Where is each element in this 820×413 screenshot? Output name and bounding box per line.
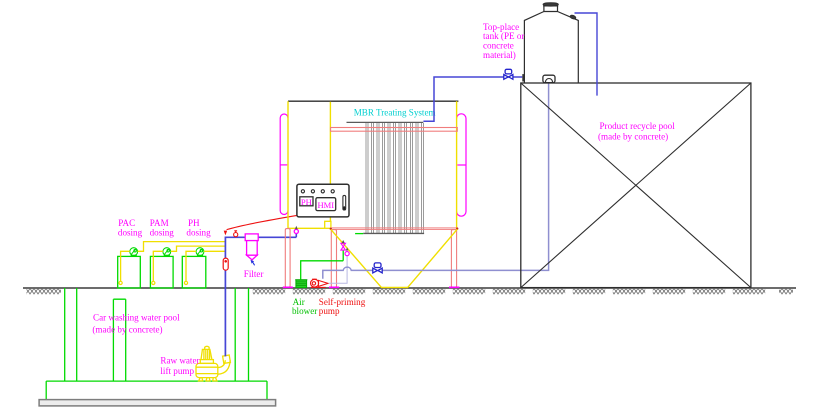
hopper (yellow): [331, 229, 458, 287]
air blower: [296, 280, 307, 288]
tank top fitting: [570, 15, 577, 20]
membrane curtains: [366, 123, 424, 233]
air pipe valve (magenta): [341, 243, 346, 250]
svg-text:lift pump: lift pump: [160, 366, 194, 376]
dosing tank PH: [182, 256, 206, 288]
MBR level gauge left: [280, 114, 288, 214]
MBR left wall: [288, 101, 325, 228]
svg-text:Product recycle pool: Product recycle pool: [600, 121, 676, 131]
dosing tank PAM: [150, 256, 173, 288]
svg-text:HMI: HMI: [317, 200, 334, 210]
svg-text:Filter: Filter: [244, 269, 264, 279]
control wire from panel (red): [227, 215, 297, 229]
pool base plate: [39, 400, 276, 406]
discharge tube PH: [204, 250, 225, 252]
permeate pipe: [423, 77, 522, 121]
PH display: [300, 197, 313, 206]
svg-text:(made by concrete): (made by concrete): [92, 325, 162, 335]
svg-text:dosing: dosing: [118, 228, 143, 238]
discharge tube PAM: [171, 246, 225, 251]
suction dip tube PAM: [153, 251, 163, 281]
raw water lift pump: [196, 346, 230, 381]
MBR leg mid: [331, 230, 336, 288]
dosing pump PAM: [163, 248, 171, 257]
membrane header: [347, 121, 424, 123]
tank bottom outlet box: [543, 75, 555, 82]
top-place tank: [524, 6, 578, 83]
discharge valve V2: [373, 263, 382, 273]
membrane cassette bar (red): [331, 128, 458, 132]
svg-text:PH: PH: [301, 197, 312, 207]
dosing tank PAC: [118, 256, 141, 288]
filter drain arrow: [251, 260, 255, 264]
dosing sensor capsule: [223, 258, 228, 270]
membrane bottom rail: [363, 232, 424, 234]
discharge tube PAC: [138, 242, 225, 252]
MBR bottom bar: [331, 228, 458, 230]
dosing pump PH: [196, 248, 204, 257]
product recycle pool: [521, 83, 751, 288]
svg-text:material): material): [483, 50, 516, 60]
pump discharge pipe: [323, 83, 549, 279]
svg-text:(made by concrete): (made by concrete): [598, 132, 668, 142]
panel indicator lamps: [301, 190, 334, 193]
tank overflow pipe: [575, 13, 598, 96]
HMI display: [316, 198, 336, 211]
panel signal wire (yellow): [329, 102, 331, 222]
tank inlet flange: [522, 74, 524, 81]
svg-text:dosing: dosing: [150, 228, 175, 238]
MBR tank top line: [288, 100, 458, 102]
drain valve: [345, 252, 349, 256]
MBR leg right: [451, 230, 456, 288]
ground line: [23, 287, 796, 289]
svg-text:MBR Treating System: MBR Treating System: [354, 108, 436, 118]
ground hatching: [27, 289, 794, 294]
MBR level gauge right: [457, 114, 466, 216]
control panel: [297, 184, 349, 217]
hopper drain line: [329, 256, 348, 283]
svg-text:Raw water: Raw water: [160, 355, 199, 365]
svg-text:pump: pump: [319, 306, 340, 316]
svg-text:blower: blower: [292, 306, 317, 316]
svg-text:Car washing water pool: Car washing water pool: [93, 312, 180, 322]
air pipe (green): [301, 250, 344, 279]
wire junction box: [325, 221, 331, 228]
self-priming pump: [311, 279, 329, 287]
suction dip tube PAC: [121, 251, 130, 281]
svg-text:dosing: dosing: [186, 228, 211, 238]
MBR leg left-outer: [285, 229, 290, 288]
raw water riser pipe: [225, 237, 296, 356]
aeration header stub (green): [355, 233, 363, 235]
inlet valve into MBR: [295, 233, 297, 237]
dosing pump PAC: [130, 248, 138, 257]
panel side slot: [343, 195, 346, 210]
MBR right wall: [456, 101, 458, 228]
car washing pool walls: [46, 288, 267, 400]
leg pads (magenta): [283, 286, 460, 288]
permeate valve V1: [504, 69, 513, 79]
suction dip tube PH: [186, 251, 196, 281]
pool cross braces: [521, 83, 751, 288]
filter F1: [245, 234, 258, 260]
small valve on pipe to filter: [234, 231, 238, 237]
